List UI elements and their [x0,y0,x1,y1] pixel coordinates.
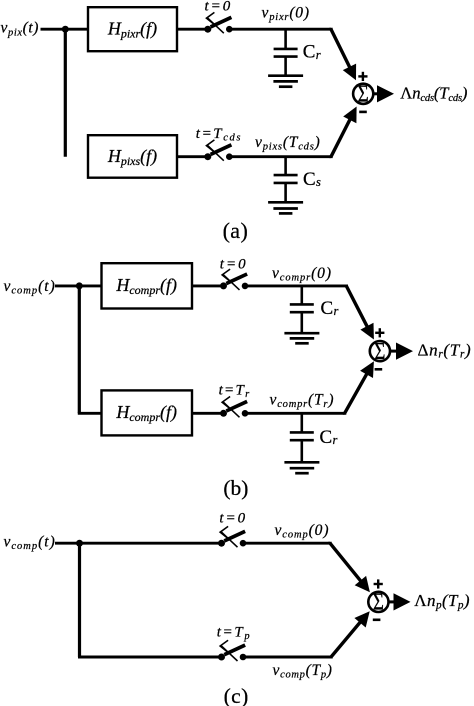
svg-text:(c): (c) [224,684,249,706]
switch S5 t=0 (c) [218,526,246,547]
wire diagonal into summer - (a) [331,118,351,158]
capacitor C_r (b top) [290,286,314,333]
ground (b top) [284,333,319,343]
wire block to switch (a top) [177,28,208,31]
wire vertical trunk (a) [64,29,67,157]
filter block H_compr(f) bottom [102,390,193,435]
wire switch to bend (a top) [229,28,331,31]
node junction dot (a) [62,26,69,33]
svg-text:r: r [316,48,321,62]
plus sign (c) [374,579,383,588]
capacitor C_r (b bottom) [290,413,314,462]
plus sign (a) [358,72,367,81]
svg-text:Σ: Σ [374,338,385,365]
summing junction (a) [353,84,373,104]
filter block H_compr(f) top [102,263,193,308]
ground (b bottom) [284,462,319,473]
svg-text:C: C [303,169,316,190]
wire diagonal into summer - (b) [345,372,368,414]
wire block to switch (a bottom) [177,155,208,158]
ground (a top) [268,76,303,87]
output arrow (a) [373,92,379,95]
switch S3 t=0 (b) [220,269,248,290]
svg-text:t=0: t=0 [220,257,248,273]
wire vertical trunk (b) [78,286,81,413]
wire vertical trunk (c) [78,543,81,657]
svg-text:C: C [320,427,333,448]
wire bottom horizontal (c) [78,656,222,659]
wire input (a) [41,28,90,31]
wire block to switch (b bottom) [192,412,224,415]
wire block to switch (b top) [192,284,224,287]
ground (a bottom) [268,202,303,213]
wire switch to bend (a bottom) [229,155,331,158]
minus sign (b) [375,368,383,371]
filter block H_pixs(f) [88,135,177,178]
switch S6 t=T_p [218,640,246,661]
minus sign (a) [359,111,367,114]
minus sign (c) [373,618,381,621]
summing junction (b) [370,341,390,361]
node junction dot (c) [76,540,83,547]
svg-text:t=0: t=0 [219,511,247,527]
plus sign (b) [375,328,384,337]
wire input (b) [55,284,103,287]
capacitor C_r (a) [274,29,298,75]
svg-text:Σ: Σ [373,589,384,616]
wire switch to bend (c top) [243,542,331,545]
wire switch to bend (b bottom) [245,412,345,415]
svg-text:r: r [334,304,339,318]
svg-text:Σ: Σ [358,81,369,108]
capacitor C_s (a) [274,157,298,203]
svg-text:C: C [321,298,334,319]
wire diagonal into summer + (b) [346,284,368,328]
wire diagonal into summer + (c) [330,542,362,582]
switch S1 t=0 [204,12,232,33]
svg-text:r: r [333,433,338,447]
filter block H_pixr(f) [88,7,177,51]
node junction dot (b) [76,282,83,289]
summing junction (c) [368,592,388,612]
wire switch to bend (c bottom) [243,656,332,659]
svg-text:(b): (b) [223,476,248,500]
svg-text:s: s [316,175,321,189]
svg-text:t=0: t=0 [205,0,233,15]
switch S4 t=T_r [220,397,248,418]
output arrow (c) [388,600,395,603]
svg-text:(a): (a) [223,218,249,243]
wire diagonal into summer - (c) [331,621,361,659]
wire input (c) [55,542,222,545]
wire trunk to lower block (b) [78,412,103,415]
wire diagonal into summer + (a) [331,28,351,69]
wire switch to bend (b top) [245,284,347,287]
svg-text:C: C [303,42,316,63]
output arrow (b) [390,350,397,353]
switch S2 t=T_cds [204,140,232,161]
